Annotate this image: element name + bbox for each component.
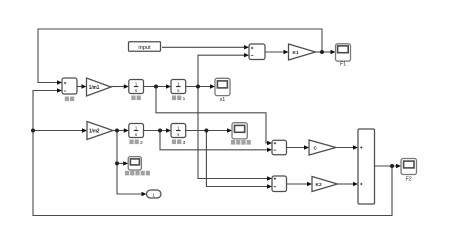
svg-text:F2: F2 xyxy=(406,177,412,183)
svg-text:1: 1 xyxy=(135,81,138,86)
svg-text:2: 2 xyxy=(140,140,143,146)
svg-text:K1: K1 xyxy=(293,50,299,56)
svg-text:1/m1: 1/m1 xyxy=(89,85,100,91)
svg-text:1: 1 xyxy=(177,125,180,130)
svg-text:C: C xyxy=(314,146,318,152)
svg-text:3: 3 xyxy=(183,140,186,146)
svg-text:input: input xyxy=(138,45,151,51)
svg-text:x1: x1 xyxy=(220,97,226,103)
svg-text:1: 1 xyxy=(152,192,155,197)
svg-text:1/m2: 1/m2 xyxy=(89,128,100,134)
svg-text:F1: F1 xyxy=(340,62,346,68)
svg-text:1: 1 xyxy=(135,125,138,130)
svg-text:1: 1 xyxy=(183,96,186,102)
svg-text:1: 1 xyxy=(177,81,180,86)
svg-text:K2: K2 xyxy=(316,182,322,188)
